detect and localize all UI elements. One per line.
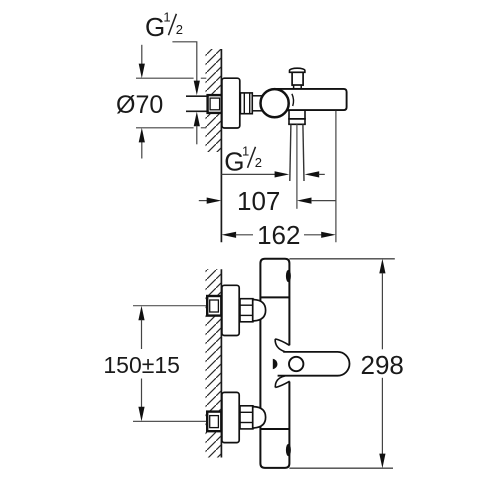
- wall line (bottom view): [220, 269, 222, 457]
- leader line G1/2 upper: [172, 42, 196, 81]
- diverter knob (top view): [290, 68, 305, 89]
- wall flange escutcheon (top view): [222, 78, 240, 128]
- spout body (top view): [277, 89, 347, 110]
- dim 107 left arrow: [199, 198, 222, 204]
- dark mark on body (side view): [273, 359, 278, 370]
- body column: [260, 259, 289, 468]
- lower wall fitting: [207, 412, 221, 432]
- spout capsule (side view): [277, 352, 350, 376]
- svg-text:2: 2: [255, 155, 262, 170]
- svg-text:298: 298: [361, 350, 404, 380]
- dim arrow G1/2 upper top: [194, 81, 200, 96]
- upper handle button: [286, 270, 291, 282]
- lower union nut: [240, 406, 253, 429]
- dim 162 left arrow: [222, 232, 254, 238]
- wall hatching (bottom view): [206, 269, 221, 457]
- lower flange escutcheon: [222, 392, 239, 442]
- supply pipe (top view): [186, 96, 209, 111]
- dia70 arrow bottom: [139, 128, 145, 159]
- body circle (top view): [261, 89, 289, 117]
- svg-text:1: 1: [163, 9, 170, 24]
- extension line 298 top: [289, 258, 394, 260]
- lower supply centerline: [133, 420, 207, 422]
- upper union nut: [240, 299, 253, 322]
- upper supply centerline: [133, 305, 207, 307]
- body cap line bottom: [260, 428, 289, 430]
- svg-text:150±15: 150±15: [103, 352, 180, 378]
- lower lever horn: [275, 376, 289, 388]
- label G 1/2 (lower): [224, 144, 262, 177]
- svg-text:2: 2: [176, 22, 183, 37]
- upper wall fitting: [207, 296, 221, 316]
- dim 107 right arrow: [297, 198, 336, 204]
- dim arrow G1/2 upper bottom: [194, 112, 200, 145]
- lower handle button: [286, 444, 291, 456]
- lower check valve dome: [253, 407, 266, 428]
- svg-text:107: 107: [237, 186, 280, 216]
- dim 298 top arrow: [379, 259, 385, 350]
- dia70 extension line top: [136, 77, 206, 79]
- dia70 arrow top: [139, 45, 145, 78]
- dim 298 bottom arrow: [379, 378, 385, 468]
- dim line G1/2 lower left: [221, 171, 289, 177]
- hand shower hose (top view): [290, 124, 304, 181]
- dim line G1/2 lower right: [305, 171, 325, 177]
- dim 162 right arrow: [304, 232, 336, 238]
- shower outlet (top view): [288, 110, 306, 124]
- svg-text:G: G: [145, 12, 165, 42]
- svg-text:Ø70: Ø70: [116, 91, 163, 119]
- upper flange escutcheon: [222, 285, 239, 335]
- upper lever horn: [275, 339, 289, 352]
- body cap line top: [260, 296, 289, 298]
- wall fitting square (top view): [208, 95, 222, 113]
- hose centerline extension: [296, 124, 298, 209]
- dim 150 bottom arrow: [138, 379, 144, 422]
- wall line (top view): [220, 49, 222, 242]
- wall hatching (top view): [206, 49, 221, 152]
- spout shoulder arc (top view): [292, 94, 294, 106]
- svg-text:162: 162: [257, 220, 300, 250]
- dia70 extension line bottom: [136, 127, 206, 129]
- extension line spout outlet: [335, 111, 337, 242]
- extension line 298 bottom: [289, 467, 393, 469]
- dim 150 top arrow: [138, 306, 144, 349]
- svg-text:1: 1: [242, 144, 249, 159]
- label G 1/2 (upper): [145, 9, 183, 42]
- upper check valve dome: [253, 300, 266, 321]
- diverter circle (side view): [289, 357, 303, 371]
- union nut (top view): [240, 93, 252, 114]
- inlet nipple (top view): [252, 96, 262, 111]
